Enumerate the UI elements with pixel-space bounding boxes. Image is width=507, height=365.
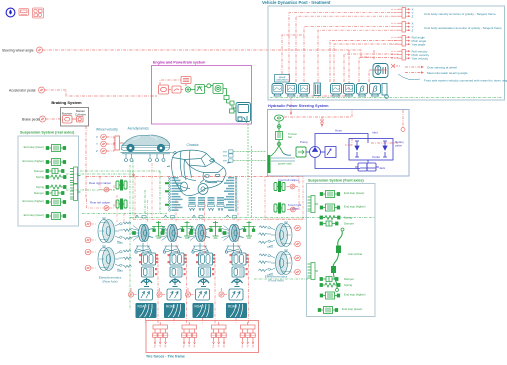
svg-text:Damper: Damper xyxy=(344,277,354,281)
svg-text:Suspension System (front axles: Suspension System (front axles) xyxy=(308,179,365,183)
svg-text:End stop (lower): End stop (lower) xyxy=(24,145,44,149)
svg-text:End stop (lower): End stop (lower) xyxy=(344,191,364,195)
svg-text:Front left caliper: Front left caliper xyxy=(278,178,299,182)
svg-text:Z: Z xyxy=(96,149,98,153)
svg-text:Tire forces - Tire frame: Tire forces - Tire frame xyxy=(146,355,185,359)
svg-text:Spring: Spring xyxy=(36,185,45,189)
svg-text:Hydraulic Power Steering Syste: Hydraulic Power Steering System xyxy=(268,104,329,108)
svg-text:Aerodynamics: Aerodynamics xyxy=(128,127,150,131)
svg-text:power rack: power rack xyxy=(278,162,292,166)
svg-text:Vehicle Dynamics Post - treatm: Vehicle Dynamics Post - treatment xyxy=(262,0,331,5)
svg-text:Rear left caliper: Rear left caliper xyxy=(90,201,110,205)
svg-text:mm: mm xyxy=(223,151,227,154)
svg-text:Spring: Spring xyxy=(344,283,353,287)
svg-text:End stop (higher): End stop (higher) xyxy=(23,199,45,203)
svg-text:Braking System: Braking System xyxy=(51,100,82,105)
svg-text:Inlet: Inlet xyxy=(372,131,378,135)
svg-text:Suspension System (rear axles): Suspension System (rear axles) xyxy=(20,131,75,135)
svg-text:Brake pedal: Brake pedal xyxy=(22,117,40,121)
svg-text:(Rear Axle): (Rear Axle) xyxy=(102,280,117,284)
svg-text:Pump: Pump xyxy=(300,140,308,144)
svg-text:Y: Y xyxy=(96,142,98,146)
svg-text:calculation: calculation xyxy=(276,79,288,82)
svg-text:End stop (higher): End stop (higher) xyxy=(344,293,366,297)
svg-text:Engine and Powertrain system: Engine and Powertrain system xyxy=(153,61,205,65)
svg-text:X: X xyxy=(96,135,98,139)
svg-text:Steering wheel angle: Steering wheel angle xyxy=(2,48,34,52)
svg-text:Front axle system velocity con: Front axle system velocity connected wit… xyxy=(424,79,507,83)
svg-text:Cylinder: Cylinder xyxy=(75,113,86,117)
svg-text:Outlet: Outlet xyxy=(372,155,380,159)
svg-text:Booster: Booster xyxy=(62,112,72,116)
svg-text:End stop (higher): End stop (higher) xyxy=(344,205,366,209)
svg-text:End stop (lower): End stop (lower) xyxy=(342,307,362,311)
svg-text:End stop (higher): End stop (higher) xyxy=(23,159,45,163)
svg-text:mm: mm xyxy=(223,160,227,163)
svg-text:mm: mm xyxy=(223,155,227,158)
svg-text:Wheel velocity: Wheel velocity xyxy=(96,128,118,132)
svg-text:Jack: Jack xyxy=(379,166,386,170)
svg-text:valve: valve xyxy=(395,144,402,148)
svg-text:Mean kinematic steering angle: Mean kinematic steering angle xyxy=(427,71,468,75)
svg-text:bar: bar xyxy=(288,135,292,139)
svg-text:Anti-roll bar: Anti-roll bar xyxy=(348,252,362,256)
svg-text:Accelerator pedal: Accelerator pedal xyxy=(9,88,36,92)
svg-text:Chassis: Chassis xyxy=(187,143,199,147)
svg-text:Damper: Damper xyxy=(34,191,44,195)
svg-text:Spring: Spring xyxy=(36,175,45,179)
svg-text:Yaw angle: Yaw angle xyxy=(412,42,426,46)
svg-text:Hose: Hose xyxy=(335,129,342,133)
svg-text:Damper: Damper xyxy=(344,222,354,226)
svg-text:End stop (lower): End stop (lower) xyxy=(24,213,44,217)
svg-text:CoG body acceleration at cente: CoG body acceleration at center of gravi… xyxy=(424,26,502,30)
svg-text:Damper: Damper xyxy=(34,169,44,173)
svg-text:Z: Z xyxy=(412,28,414,32)
svg-text:Z: Z xyxy=(412,14,414,18)
svg-text:Yaw velocity: Yaw velocity xyxy=(412,56,429,60)
svg-text:CoG body velocity at center of: CoG body velocity at center of gravity -… xyxy=(424,12,496,16)
svg-text:Over steering at wheel: Over steering at wheel xyxy=(427,65,457,69)
